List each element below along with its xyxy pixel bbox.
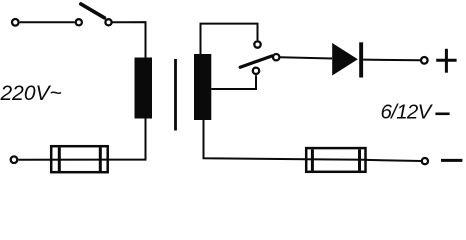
transformer T1 primary winding xyxy=(135,58,153,119)
wire (through fuse F1) xyxy=(18,159,108,161)
wire (through fuse F2) xyxy=(306,158,366,161)
selector S2 lower contact xyxy=(253,68,259,74)
transformer T1 secondary winding xyxy=(194,54,211,120)
wire xyxy=(108,119,146,160)
wire (tap to selector lower contact) xyxy=(211,75,256,89)
transformer T1 core xyxy=(174,59,177,131)
fuse F2 (output) xyxy=(306,148,365,172)
plus sign xyxy=(436,49,456,73)
selector S2 upper contact xyxy=(254,41,260,47)
terminal: DC output plus xyxy=(421,57,428,64)
fuse F1 (mains) xyxy=(51,146,107,172)
terminal: AC input top xyxy=(12,19,19,26)
switch S1 left contact xyxy=(76,19,82,25)
wire xyxy=(20,21,75,23)
wire xyxy=(112,22,145,57)
svg-text:6/12V: 6/12V xyxy=(381,100,434,123)
minus sign xyxy=(441,159,462,162)
diode D1 xyxy=(332,42,363,77)
wire (secondary bottom) xyxy=(204,120,307,159)
switch S1 blade xyxy=(81,4,105,18)
selector S2 blade xyxy=(240,56,272,67)
wire xyxy=(280,57,332,58)
switch S1 right contact xyxy=(105,19,111,25)
terminal: AC input bottom xyxy=(11,156,18,163)
wire xyxy=(363,59,421,62)
svg-text:220V~: 220V~ xyxy=(0,82,62,105)
wire xyxy=(366,160,422,161)
terminal: DC output minus xyxy=(422,158,428,164)
label dash after 6/12V xyxy=(435,113,449,116)
selector S2 pole contact xyxy=(273,54,279,60)
wire (secondary top to selector upper contact) xyxy=(201,24,258,54)
